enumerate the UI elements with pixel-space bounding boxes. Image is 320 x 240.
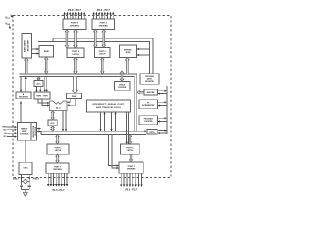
wire bus2 to B register xyxy=(21,77,26,92)
ground xyxy=(22,190,30,197)
svg-text:RAM: RAM xyxy=(44,50,49,53)
svg-text:TMP1: TMP1 xyxy=(43,95,48,97)
node RST xyxy=(3,136,16,138)
node VCC xyxy=(5,15,13,20)
svg-text:PORT 3: PORT 3 xyxy=(128,166,135,168)
wire DPTR side arrows xyxy=(158,131,167,133)
wire timing control up arrow xyxy=(20,102,22,123)
svg-text:ACC: ACC xyxy=(50,122,55,125)
interrupt, serial port and timer blocks xyxy=(87,100,131,112)
wire P0 pins xyxy=(65,12,85,19)
wire interrupt block down to port3 latch xyxy=(127,112,129,144)
crystal Y1 xyxy=(22,179,30,183)
svg-text:LATCH: LATCH xyxy=(99,53,106,56)
wire port3 latch to port3 drivers xyxy=(129,154,132,162)
svg-text:P2.0 - P2.7: P2.0 - P2.7 xyxy=(97,8,111,12)
timing and control xyxy=(18,123,32,141)
EPROM/ROM xyxy=(120,45,137,58)
svg-text:OSC: OSC xyxy=(23,168,28,170)
svg-text:DRIVERS: DRIVERS xyxy=(127,169,136,171)
wire bus2 to stack pointer xyxy=(120,71,123,81)
svg-text:REGISTER: REGISTER xyxy=(19,96,28,98)
svg-text:STACK: STACK xyxy=(119,83,126,86)
wire bus1 (upper data bus, turns down at right into program address register) xyxy=(38,38,153,73)
capacitor C2 xyxy=(28,184,31,189)
node ALE/PROG xyxy=(3,128,16,131)
svg-text:EPROM /: EPROM / xyxy=(124,49,132,51)
wire P2 pins xyxy=(94,12,114,19)
ALU xyxy=(50,101,68,111)
svg-text:ROM: ROM xyxy=(126,52,131,54)
wire port0 drivers through bus1 into port0 latch (hollow arrows) xyxy=(65,30,77,49)
svg-text:TMP2: TMP2 xyxy=(36,95,41,97)
RAM xyxy=(39,46,54,58)
wire P1 pins xyxy=(48,173,67,186)
wire port0 latch to bus2 xyxy=(74,58,77,75)
wire bus2 down into PSW (hollow arrow) xyxy=(73,77,78,94)
oscillator OSC xyxy=(19,162,32,174)
capacitor C1 xyxy=(20,184,23,189)
TMP registers TMP2 TMP1 xyxy=(34,92,50,99)
PSW xyxy=(67,93,82,98)
wire ALU down to bus3 xyxy=(63,111,66,131)
port 0 latch xyxy=(67,48,84,58)
ACC xyxy=(34,81,43,87)
svg-text:ACC: ACC xyxy=(36,82,41,85)
wire bus2 to TMP1 xyxy=(45,77,47,92)
svg-text:COUNTER: COUNTER xyxy=(144,121,153,123)
wire port2 latch to bus2 xyxy=(101,58,104,75)
wire RAM to bus2 xyxy=(45,57,48,74)
program counter xyxy=(139,116,158,125)
wire bus1 branch arrows into EPROM right edge xyxy=(137,49,149,55)
wire XTAL2 leg xyxy=(28,174,30,185)
svg-text:AND: AND xyxy=(22,130,27,133)
wire bus3 to port1 latch xyxy=(56,134,59,144)
wire bus3 to port3 latch xyxy=(128,134,131,144)
B register xyxy=(16,92,31,99)
wire ALU to PSW xyxy=(51,111,54,120)
instruction register xyxy=(31,123,37,141)
node PSEN xyxy=(2,127,16,129)
node VSS xyxy=(5,21,10,28)
wire RAM addr register up-arrow from bus2 xyxy=(25,58,28,74)
wire port2 drivers through bus1 into port2 latch (hollow arrows) xyxy=(94,30,106,48)
svg-text:P0.0 - P0.7: P0.0 - P0.7 xyxy=(68,8,82,12)
svg-text:DPTR: DPTR xyxy=(150,132,156,134)
svg-text:P3.0 - P3.7: P3.0 - P3.7 xyxy=(125,188,138,191)
svg-text:ALU: ALU xyxy=(56,107,61,110)
wire program counter side arrows xyxy=(158,118,167,121)
svg-text:XTAL2: XTAL2 xyxy=(33,178,40,181)
svg-text:REGISTER: REGISTER xyxy=(35,126,37,135)
svg-text:DRIVERS: DRIVERS xyxy=(99,25,109,27)
wire interrupt block to bus3 arrows xyxy=(101,112,116,131)
wire timing control to OSC xyxy=(25,140,27,162)
wire port1 latch to port1 drivers xyxy=(56,154,59,163)
svg-text:CONTROL: CONTROL xyxy=(20,134,30,136)
port 0 drivers xyxy=(63,19,86,30)
port 3 latch xyxy=(121,144,140,154)
wire bus3 (lower internal bus) xyxy=(41,131,146,134)
svg-text:PORT 2: PORT 2 xyxy=(100,23,108,25)
wire bus2 (middle internal bus, right end turns down) xyxy=(20,74,137,131)
svg-text:BUFFER: BUFFER xyxy=(147,92,155,94)
ACC accumulator xyxy=(48,120,57,126)
wire right vertical net xyxy=(166,86,168,134)
svg-text:AND TIMER BLOCKS: AND TIMER BLOCKS xyxy=(96,106,121,109)
svg-text:PORT 3: PORT 3 xyxy=(126,147,133,149)
svg-text:LATCH: LATCH xyxy=(127,149,134,152)
program address register xyxy=(140,74,159,85)
svg-text:RAM ADDR.: RAM ADDR. xyxy=(23,39,26,52)
svg-text:INCREMENTER: INCREMENTER xyxy=(142,105,155,107)
svg-text:PORT 1: PORT 1 xyxy=(54,166,61,168)
port 1 drivers xyxy=(46,163,69,173)
port 2 drivers xyxy=(92,19,115,30)
stack pointer xyxy=(115,82,131,91)
wire PSW to bus3 xyxy=(51,126,54,131)
svg-text:XTAL1: XTAL1 xyxy=(13,178,20,181)
wire RAM addr register to RAM arrows xyxy=(32,49,39,54)
chip boundary (dashed) xyxy=(13,16,171,178)
wire PC incrementer side arrows xyxy=(158,102,167,105)
svg-text:PORT 0: PORT 0 xyxy=(71,23,79,25)
svg-text:LATCH: LATCH xyxy=(72,53,79,56)
port 1 latch xyxy=(47,144,69,154)
node EA/VPP xyxy=(4,132,16,135)
svg-text:PORT 1: PORT 1 xyxy=(55,147,62,149)
port 3 drivers xyxy=(119,162,143,173)
svg-text:REGISTER: REGISTER xyxy=(145,81,154,83)
wire EPROM bottom feed arrow xyxy=(125,58,129,75)
PC incrementer xyxy=(139,100,158,109)
svg-text:INTERRUPT, SERIAL PORT,: INTERRUPT, SERIAL PORT, xyxy=(92,103,125,106)
svg-text:LATCH: LATCH xyxy=(55,149,62,152)
wire bus2 to ACC xyxy=(37,77,39,81)
wire buffer left hollow arrow xyxy=(137,91,144,94)
RAM address register xyxy=(22,34,32,59)
svg-text:DRIVERS: DRIVERS xyxy=(70,25,80,27)
svg-text:PSW: PSW xyxy=(72,96,77,98)
wire PSW to ALU right inputs xyxy=(68,98,76,105)
buffer xyxy=(144,89,158,95)
svg-text:DRIVERS: DRIVERS xyxy=(53,169,62,171)
svg-text:POINTER: POINTER xyxy=(118,87,127,89)
DPTR xyxy=(147,129,157,134)
wire ACC to TMP xyxy=(37,87,41,92)
wire bus3 down into port3 drivers left side xyxy=(109,134,119,168)
svg-text:PORT 2: PORT 2 xyxy=(99,51,106,53)
svg-text:PORT 0: PORT 0 xyxy=(72,51,79,53)
wire buffer right arrows xyxy=(158,91,167,94)
wire TMP to ALU inputs xyxy=(38,99,49,105)
wire XTAL1 leg xyxy=(21,174,23,185)
port 2 latch xyxy=(95,48,111,58)
svg-text:P1.0 - P1.7: P1.0 - P1.7 xyxy=(53,189,66,192)
wire P3 pins xyxy=(121,173,141,186)
svg-text:RST: RST xyxy=(3,136,6,138)
wire instruction register to bus3 xyxy=(37,129,41,132)
svg-text:REGISTER: REGISTER xyxy=(27,40,29,52)
